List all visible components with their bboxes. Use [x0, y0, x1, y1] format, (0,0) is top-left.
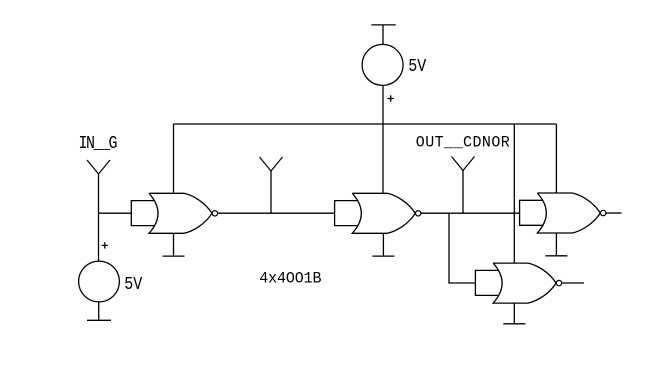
svg-text:4x4OO1B: 4x4OO1B	[259, 269, 321, 288]
svg-text:OUT__CDNOR: OUT__CDNOR	[416, 133, 510, 152]
svg-text:5V: 5V	[408, 57, 426, 78]
svg-text:IN__G: IN__G	[79, 133, 118, 154]
svg-text:5V: 5V	[124, 275, 142, 296]
